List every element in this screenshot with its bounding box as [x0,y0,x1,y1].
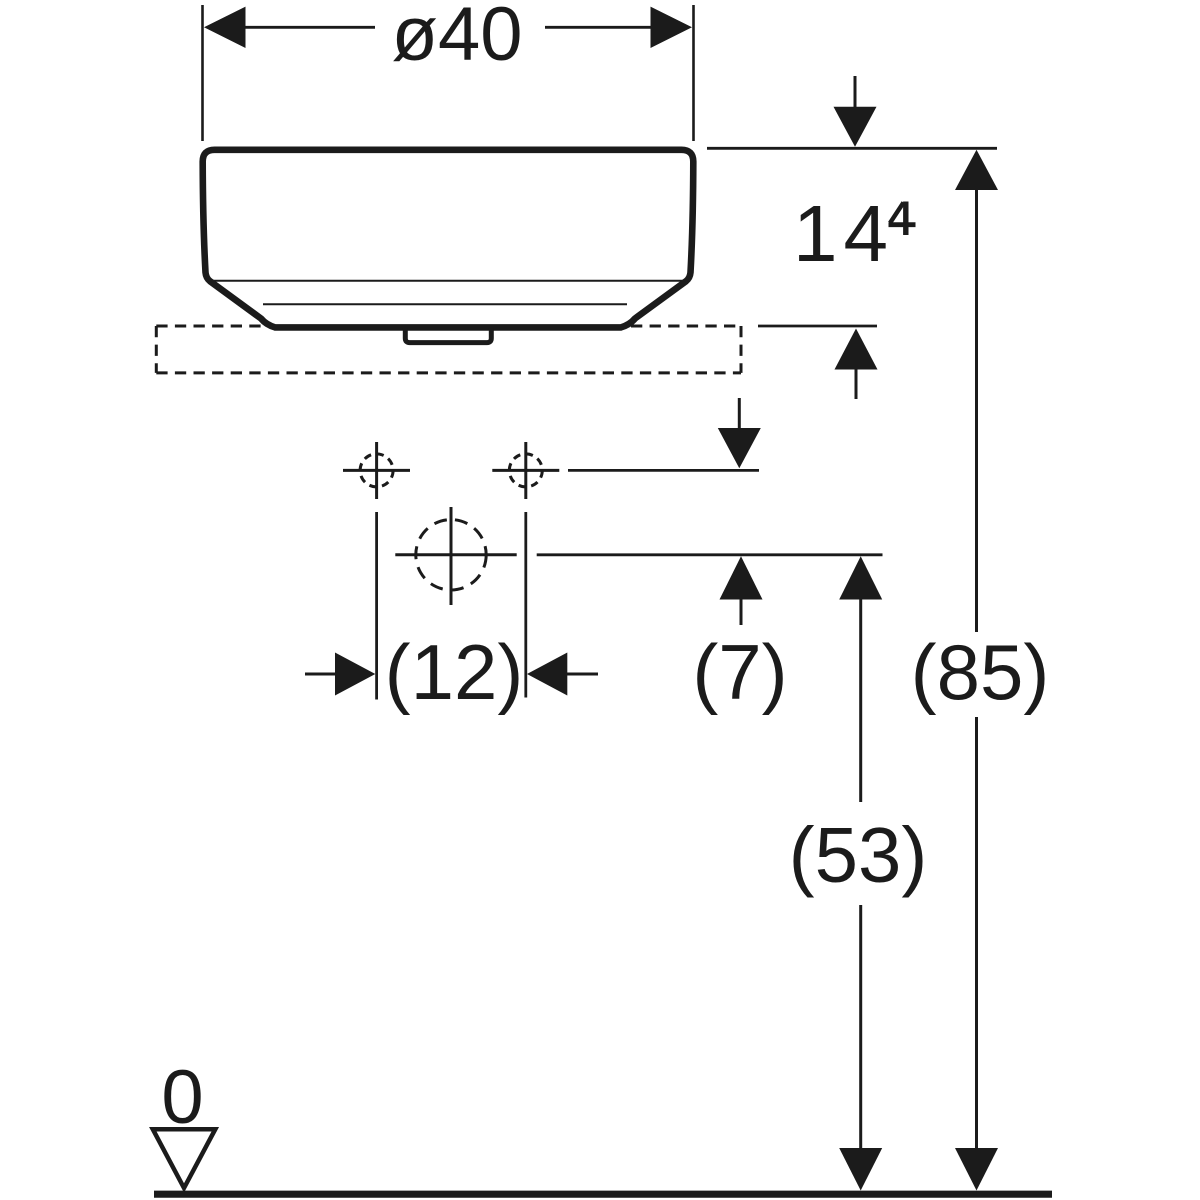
arrowhead o40 right [651,7,693,48]
extension line right (o40) [692,5,695,141]
countertop dashed left edge [155,326,158,373]
svg-text:(85): (85) [911,628,1050,716]
right tap hole dashed circle [509,454,542,487]
dim 12 right arrow tail [567,673,598,676]
dim 53 top arrowhead (up) [839,556,882,599]
left tap hole cross vertical [375,442,378,499]
dim 12 extension line left [375,512,378,700]
dimension line o40 left segment [244,26,375,29]
drain hole dashed circle [416,520,486,590]
dim 53 line lower part [859,905,862,1149]
dim 14 bottom arrowhead (up) [835,329,878,370]
counter level line right of basin [758,325,877,328]
basin lower contour line [263,303,627,305]
right tap hole cross horizontal [492,469,559,472]
dimension line o40 right segment [545,26,653,29]
svg-text:(7): (7) [692,628,787,716]
dim 85 line upper part [975,189,978,632]
washbasin outer outline [203,150,694,328]
floor line [154,1191,1052,1198]
tap hole axis line [568,469,759,472]
svg-text:14: 14 [793,189,894,278]
svg-text:ø40: ø40 [392,0,523,77]
dim 85 bottom arrowhead (down) [955,1148,998,1191]
dim 14 top arrow tail [854,76,857,108]
dim 85 top arrowhead (up) [955,150,998,190]
dim 7 bottom arrow tail [740,598,743,625]
basin inner rim line [210,280,687,282]
countertop dashed bottom edge [156,371,741,374]
dim 7 top arrowhead (down) [718,428,761,468]
dim 85 line lower part [975,717,978,1149]
countertop dashed outline top-right segment [631,325,741,328]
svg-text:(12): (12) [385,628,524,716]
right tap hole cross vertical [524,442,527,499]
dim 53 line upper part [859,598,862,802]
countertop dashed right edge [740,326,743,373]
dim 14 top arrowhead (down) [834,107,877,147]
countertop dashed outline top-left segment [156,325,264,328]
svg-text:0: 0 [161,1055,203,1140]
dim 53 bottom arrowhead (down) [839,1148,882,1191]
label superscript 4 (drawn as strokes to avoid subpixel AA) [889,202,916,236]
left tap hole dashed circle [360,454,393,487]
dim 7 top arrow tail [738,398,741,429]
arrowhead o40 left [204,7,246,48]
extension line left (o40) [201,5,204,141]
datum triangle [153,1129,216,1188]
drain axis line [537,553,883,556]
drain hole cross horizontal [395,553,516,556]
svg-text:(53): (53) [789,811,928,899]
dim 7 bottom arrowhead (up) [720,556,763,599]
dim 12 left arrowhead (right) [335,653,375,696]
basin top level line [707,147,997,150]
left tap hole cross horizontal [343,469,410,472]
dim 12 left arrow tail [305,673,336,676]
dim 12 right arrowhead (left) [527,653,567,696]
dim 12 extension line right [524,512,527,698]
drain outlet under basin [405,328,491,343]
drain hole cross vertical [450,507,453,605]
dim 14 bottom arrow tail [855,368,858,399]
